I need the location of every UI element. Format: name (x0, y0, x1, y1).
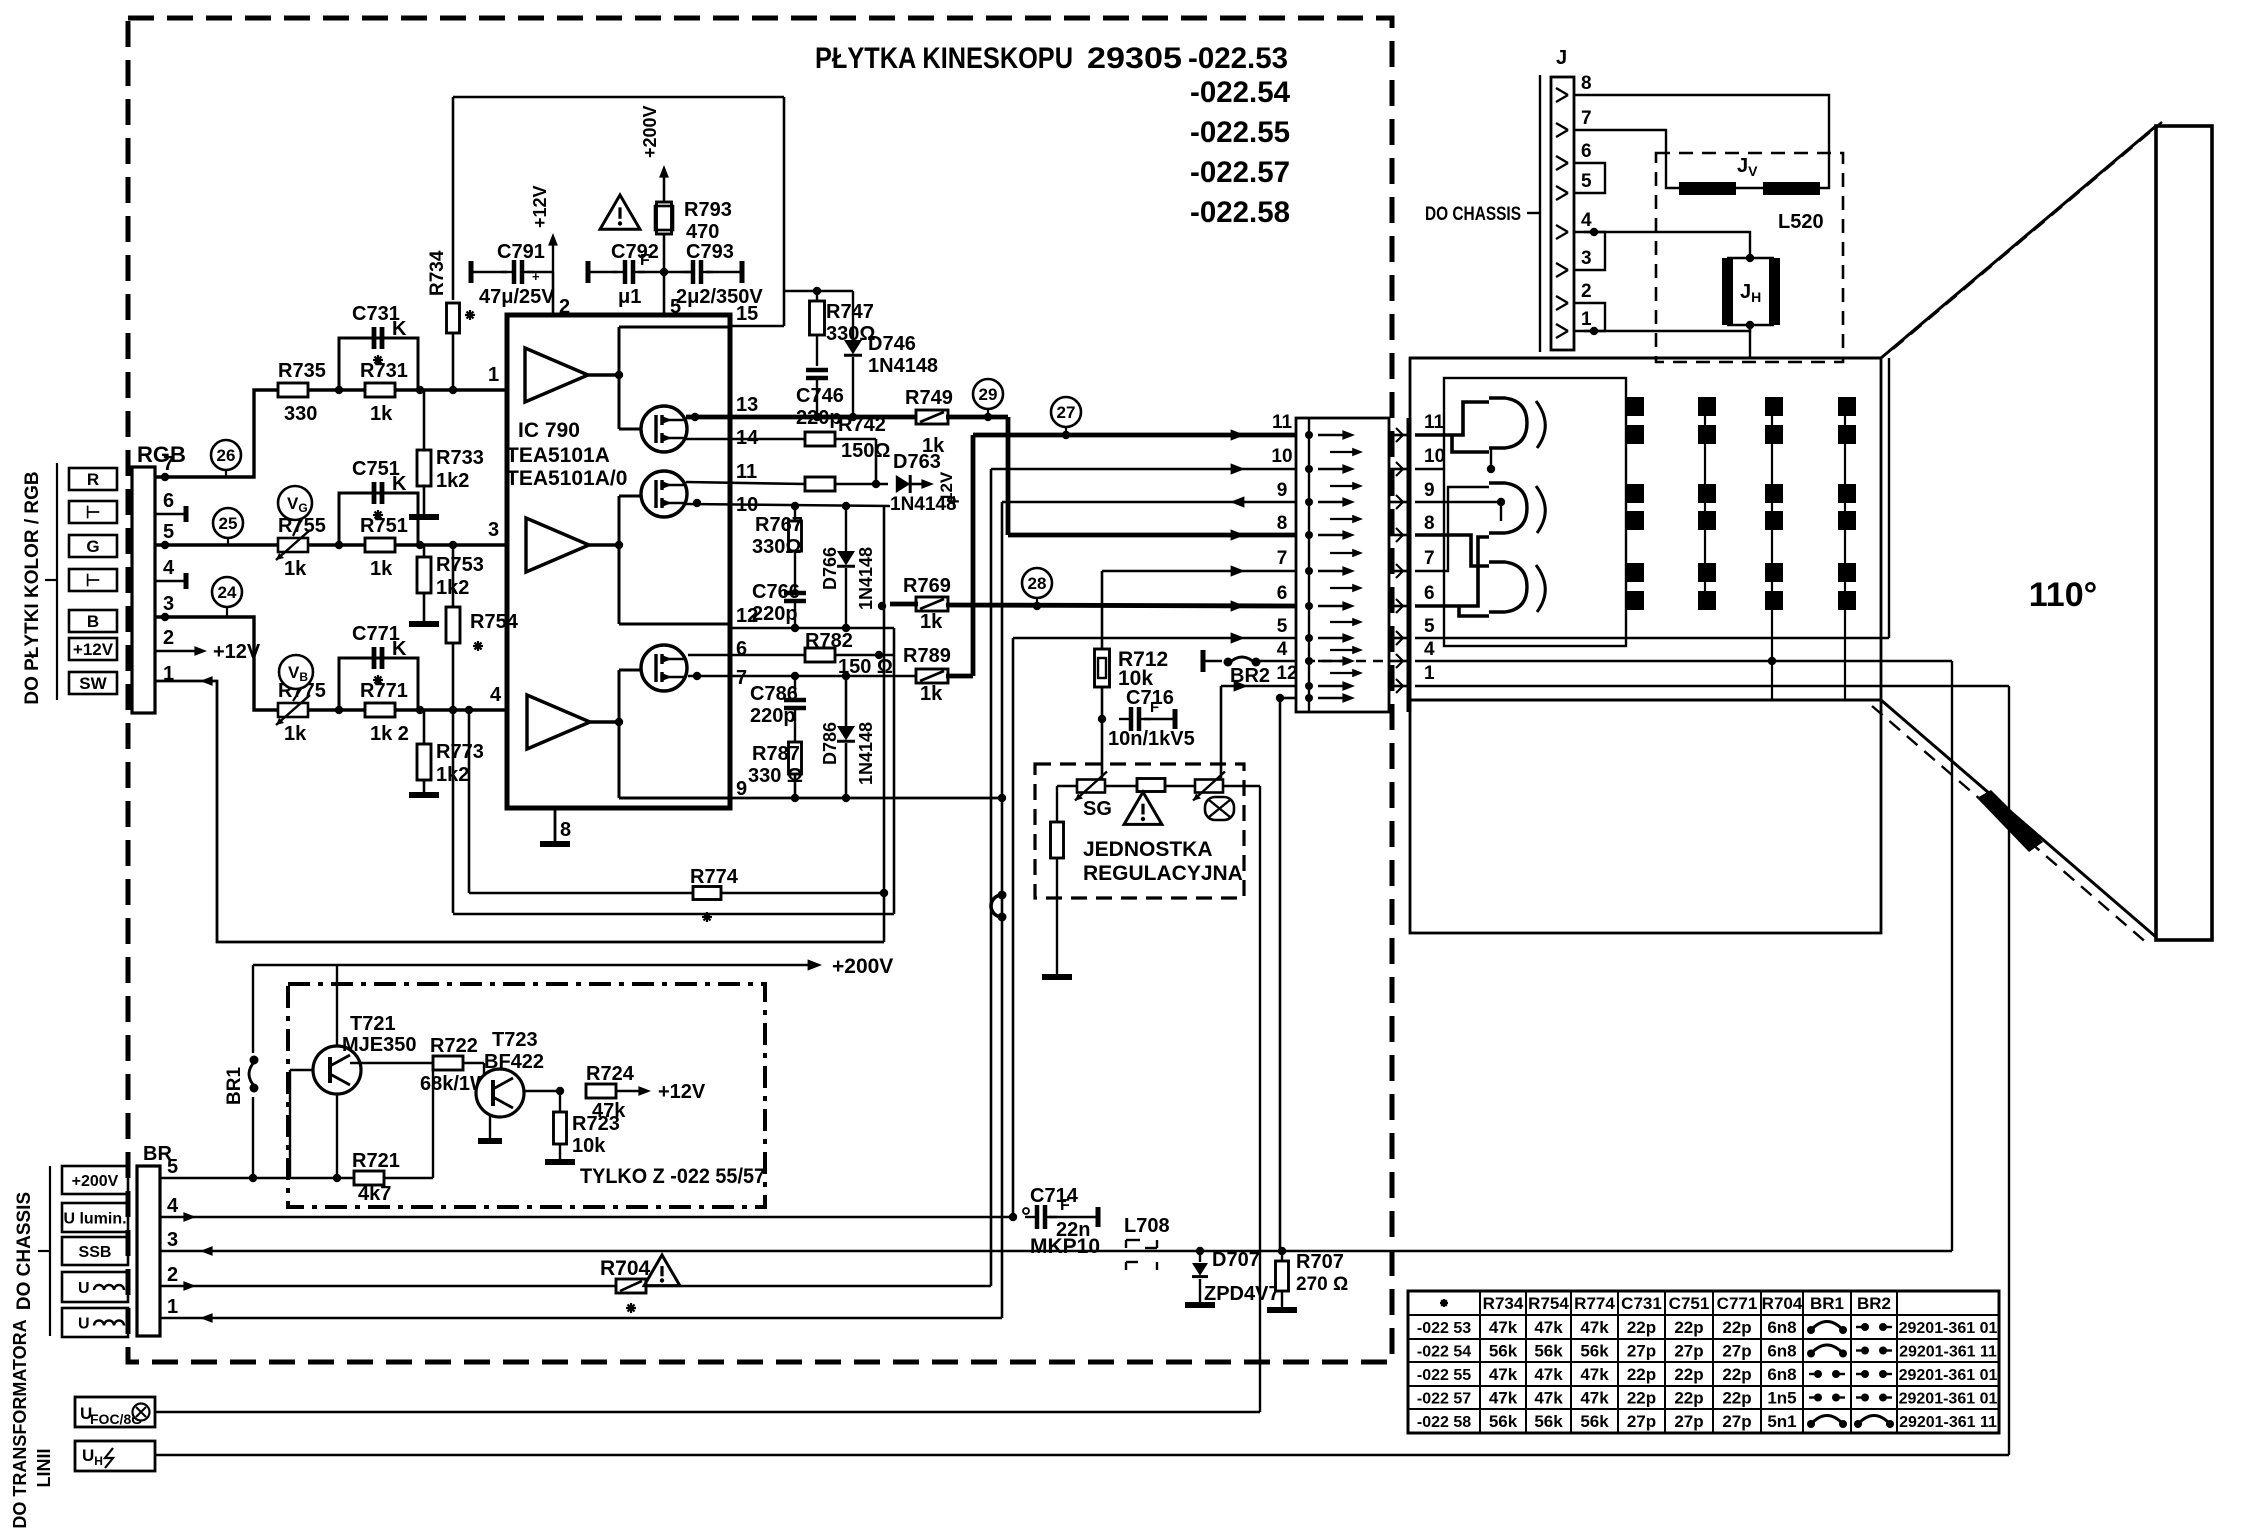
svg-text:-022 54: -022 54 (1417, 1344, 1471, 1361)
svg-text:C793: C793 (686, 241, 734, 263)
svg-text:4: 4 (1424, 639, 1435, 660)
svg-text:R734: R734 (427, 250, 448, 296)
svg-text:R774: R774 (690, 866, 739, 888)
svg-text:47k: 47k (1534, 1389, 1563, 1408)
svg-text:4: 4 (1277, 639, 1288, 660)
svg-text:R749: R749 (905, 387, 953, 409)
svg-text:U lumin.: U lumin. (63, 1211, 126, 1228)
svg-text:R771: R771 (360, 680, 408, 702)
svg-text:47k: 47k (1580, 1389, 1609, 1408)
svg-text:3: 3 (163, 593, 174, 615)
svg-text:C751: C751 (1669, 1294, 1710, 1313)
svg-text:12: 12 (1276, 663, 1297, 684)
svg-text:11: 11 (736, 461, 757, 483)
svg-text:27p: 27p (1674, 1342, 1703, 1361)
svg-text:R704: R704 (600, 1257, 651, 1280)
svg-text:6n8: 6n8 (1767, 1318, 1796, 1337)
svg-text:22p: 22p (1722, 1365, 1751, 1384)
svg-text:2: 2 (167, 1264, 178, 1286)
svg-text:29201-361 01: 29201-361 01 (1899, 1367, 1998, 1384)
svg-text:DO CHASSIS: DO CHASSIS (1425, 204, 1521, 225)
svg-text:27p: 27p (1627, 1412, 1656, 1431)
svg-text:U: U (78, 1280, 90, 1297)
svg-text:BR1: BR1 (1810, 1294, 1844, 1313)
svg-text:27p: 27p (1722, 1342, 1751, 1361)
svg-text:T723: T723 (492, 1029, 538, 1051)
svg-text:R754: R754 (1528, 1294, 1569, 1313)
svg-text:BR1: BR1 (224, 1067, 245, 1105)
svg-text:13: 13 (736, 394, 758, 416)
svg-text:6: 6 (1277, 583, 1288, 604)
svg-text:T721: T721 (350, 1013, 396, 1035)
svg-text:C786: C786 (750, 683, 798, 705)
svg-text:5: 5 (163, 521, 174, 543)
svg-text:8: 8 (1581, 73, 1592, 94)
svg-text:56k: 56k (1580, 1342, 1609, 1361)
svg-text:10: 10 (1271, 446, 1292, 467)
svg-text:R793: R793 (684, 199, 732, 221)
svg-text:L708: L708 (1124, 1215, 1170, 1237)
svg-text:R724: R724 (586, 1063, 635, 1085)
svg-text:D746: D746 (868, 333, 916, 355)
svg-text:R734: R734 (1483, 1294, 1524, 1313)
svg-text:29201-361 01: 29201-361 01 (1899, 1391, 1998, 1408)
svg-text:-022 57: -022 57 (1417, 1391, 1471, 1408)
svg-text:U: U (78, 1316, 90, 1333)
svg-text:22p: 22p (1674, 1318, 1703, 1337)
svg-text:22p: 22p (1627, 1389, 1656, 1408)
svg-text:47k: 47k (1489, 1389, 1518, 1408)
svg-text:1n5: 1n5 (1767, 1389, 1796, 1408)
svg-text:MJE350: MJE350 (342, 1034, 417, 1056)
svg-text:1: 1 (488, 364, 499, 386)
svg-text:K: K (392, 473, 407, 495)
svg-text:+200V: +200V (640, 105, 660, 158)
svg-text:7: 7 (1581, 108, 1592, 129)
svg-text:⊢: ⊢ (86, 503, 101, 522)
svg-text:R754: R754 (470, 611, 519, 633)
svg-text:25: 25 (219, 514, 238, 533)
svg-text:C791: C791 (497, 241, 545, 263)
svg-text:1: 1 (1424, 663, 1435, 684)
svg-text:330: 330 (284, 403, 317, 425)
svg-text:6: 6 (1424, 583, 1435, 604)
svg-text:22p: 22p (1627, 1318, 1656, 1337)
svg-text:9: 9 (1277, 480, 1288, 501)
svg-text:R773: R773 (436, 741, 484, 763)
svg-text:22p: 22p (1627, 1365, 1656, 1384)
svg-text:SG: SG (1083, 798, 1112, 820)
svg-text:29: 29 (979, 385, 998, 404)
svg-text:C771: C771 (1717, 1294, 1758, 1313)
svg-text:3: 3 (488, 519, 499, 541)
svg-text:5n1: 5n1 (1767, 1412, 1796, 1431)
svg-text:K: K (392, 318, 407, 340)
svg-text:R747: R747 (826, 301, 874, 323)
svg-text:-022 58: -022 58 (1417, 1414, 1471, 1431)
svg-text:SW: SW (79, 674, 107, 693)
svg-text:1k: 1k (920, 611, 943, 633)
svg-text:150Ω: 150Ω (841, 440, 890, 462)
svg-text:47k: 47k (1580, 1365, 1609, 1384)
svg-text:11: 11 (1424, 412, 1445, 433)
svg-text:1N4148: 1N4148 (856, 722, 876, 785)
svg-text:-022.53: -022.53 (1188, 42, 1288, 75)
svg-text:JEDNOSTKA: JEDNOSTKA (1083, 838, 1213, 861)
svg-text:10k: 10k (572, 1135, 606, 1157)
svg-text:6: 6 (1581, 141, 1592, 162)
svg-text:9: 9 (1424, 480, 1435, 501)
svg-text:1N4148: 1N4148 (868, 355, 938, 377)
svg-text:15: 15 (736, 303, 758, 325)
svg-text:F: F (1060, 1197, 1070, 1214)
svg-text:+12V: +12V (530, 185, 550, 228)
svg-text:L520: L520 (1778, 211, 1824, 233)
svg-text:6: 6 (163, 490, 174, 512)
svg-text:56k: 56k (1489, 1342, 1518, 1361)
svg-text:+12V: +12V (73, 640, 114, 659)
svg-text:110°: 110° (2029, 576, 2097, 614)
svg-text:220p: 220p (750, 705, 796, 727)
svg-text:8: 8 (1424, 513, 1435, 534)
svg-text:6n8: 6n8 (1767, 1342, 1796, 1361)
svg-text:+200V: +200V (72, 1173, 119, 1190)
svg-text:DO TRANSFORMATORA: DO TRANSFORMATORA (10, 1319, 30, 1528)
svg-text:1k: 1k (284, 558, 307, 580)
svg-text:R731: R731 (360, 360, 408, 382)
svg-text:330Ω: 330Ω (752, 536, 801, 558)
svg-text:22p: 22p (1722, 1318, 1751, 1337)
svg-text:27p: 27p (1674, 1412, 1703, 1431)
svg-text:5: 5 (1424, 616, 1435, 637)
svg-text:R735: R735 (278, 360, 326, 382)
svg-text:K: K (392, 638, 407, 660)
svg-text:+12V: +12V (658, 1081, 706, 1103)
svg-text:R721: R721 (352, 1150, 400, 1172)
svg-text:PŁYTKA KINESKOPU: PŁYTKA KINESKOPU (815, 42, 1073, 75)
svg-text:8: 8 (560, 819, 571, 841)
svg-text:47k: 47k (1534, 1318, 1563, 1337)
svg-text:28: 28 (1028, 574, 1047, 593)
svg-text:5: 5 (1581, 171, 1592, 192)
svg-text:26: 26 (217, 446, 236, 465)
svg-text:22p: 22p (1674, 1365, 1703, 1384)
svg-text:C766: C766 (752, 581, 800, 603)
svg-text:56k: 56k (1534, 1342, 1563, 1361)
svg-text:R782: R782 (805, 630, 853, 652)
svg-text:56k: 56k (1489, 1412, 1518, 1431)
svg-text:1N4148: 1N4148 (856, 547, 876, 610)
svg-text:29305: 29305 (1087, 42, 1182, 75)
svg-text:G: G (86, 537, 99, 556)
svg-text:C731: C731 (1621, 1294, 1662, 1313)
svg-text:56k: 56k (1580, 1412, 1609, 1431)
svg-text:R722: R722 (430, 1035, 478, 1057)
svg-text:R723: R723 (572, 1113, 620, 1135)
svg-text:10: 10 (1424, 446, 1445, 467)
svg-text:R704: R704 (1762, 1294, 1803, 1313)
svg-text:1k: 1k (370, 558, 393, 580)
svg-text:MKP10: MKP10 (1030, 1235, 1100, 1258)
svg-text:-022.55: -022.55 (1190, 116, 1290, 149)
svg-text:-022 53: -022 53 (1417, 1320, 1471, 1337)
svg-text:RGB: RGB (137, 442, 186, 467)
svg-text:1k 2: 1k 2 (370, 723, 409, 745)
svg-text:220p: 220p (752, 603, 798, 625)
svg-text:47k: 47k (1489, 1365, 1518, 1384)
svg-text:SSB: SSB (79, 1244, 112, 1261)
svg-text:R753: R753 (436, 554, 484, 576)
svg-text:1k: 1k (284, 723, 307, 745)
svg-text:47k: 47k (1580, 1318, 1609, 1337)
svg-text:R733: R733 (436, 447, 484, 469)
svg-text:LINII: LINII (34, 1449, 54, 1488)
svg-text:4: 4 (167, 1195, 179, 1217)
svg-text:1k: 1k (920, 683, 943, 705)
svg-text:5: 5 (1277, 616, 1288, 637)
svg-text:F: F (1150, 699, 1159, 716)
svg-text:7: 7 (1277, 548, 1288, 569)
svg-text:29201-361 11: 29201-361 11 (1899, 1414, 1997, 1431)
svg-text:F: F (640, 252, 650, 269)
svg-text:BF422: BF422 (484, 1051, 544, 1073)
svg-text:D763: D763 (893, 451, 941, 473)
svg-text:R767: R767 (755, 514, 803, 536)
svg-text:6: 6 (736, 638, 747, 660)
svg-text:29201-361 01: 29201-361 01 (1899, 1320, 1998, 1337)
svg-text:D707: D707 (1212, 1249, 1260, 1271)
svg-text:ZPD4V7: ZPD4V7 (1204, 1283, 1280, 1305)
svg-text:47μ/25V: 47μ/25V (479, 286, 555, 308)
svg-text:C714: C714 (1030, 1185, 1079, 1207)
svg-text:-022.57: -022.57 (1190, 156, 1290, 189)
svg-text:R742: R742 (838, 414, 886, 436)
svg-text:56k: 56k (1534, 1412, 1563, 1431)
svg-text:27: 27 (1057, 403, 1076, 422)
svg-text:C792: C792 (611, 241, 659, 263)
svg-text:IC 790: IC 790 (518, 419, 580, 442)
svg-text:4: 4 (1581, 210, 1592, 231)
svg-text:1k: 1k (370, 403, 393, 425)
svg-text:+: + (532, 269, 540, 284)
svg-text:DO PŁYTKI KOLOR / RGB: DO PŁYTKI KOLOR / RGB (22, 471, 43, 704)
svg-text:TEA5101A/0: TEA5101A/0 (506, 467, 627, 490)
svg-text:B: B (87, 612, 99, 631)
svg-text:REGULACYJNA: REGULACYJNA (1083, 862, 1243, 885)
svg-text:BR2: BR2 (1857, 1294, 1891, 1313)
svg-text:3: 3 (167, 1229, 178, 1251)
svg-text:+200V: +200V (832, 955, 893, 978)
svg-text:1: 1 (167, 1296, 178, 1318)
svg-text:R707: R707 (1296, 1251, 1344, 1273)
svg-text:4: 4 (163, 557, 175, 579)
svg-text:TYLKO Z -022 55/57: TYLKO Z -022 55/57 (580, 1165, 765, 1188)
svg-text:C746: C746 (796, 385, 844, 407)
svg-text:R774: R774 (1574, 1294, 1615, 1313)
svg-text:⊢: ⊢ (86, 571, 101, 590)
svg-text:-022 55: -022 55 (1417, 1367, 1471, 1384)
svg-text:R769: R769 (903, 575, 951, 597)
svg-text:μ1: μ1 (618, 286, 641, 308)
svg-text:47k: 47k (1489, 1318, 1518, 1337)
svg-text:10n/1kV5: 10n/1kV5 (1108, 728, 1195, 750)
svg-text:22p: 22p (1722, 1389, 1751, 1408)
svg-text:27p: 27p (1722, 1412, 1751, 1431)
svg-text:TEA5101A: TEA5101A (506, 444, 610, 467)
svg-text:2: 2 (163, 627, 174, 649)
svg-text:8: 8 (1277, 513, 1288, 534)
svg-text:22p: 22p (1674, 1389, 1703, 1408)
svg-text:270 Ω: 270 Ω (1296, 1274, 1348, 1295)
svg-text:J: J (1556, 47, 1567, 69)
svg-text:7: 7 (736, 667, 747, 689)
svg-text:-022.54: -022.54 (1190, 76, 1290, 109)
svg-text:7: 7 (1424, 548, 1435, 569)
svg-text:330 Ω: 330 Ω (748, 765, 803, 787)
svg-text:29201-361 11: 29201-361 11 (1899, 1344, 1997, 1361)
svg-text:24: 24 (218, 583, 237, 602)
svg-text:6n8: 6n8 (1767, 1365, 1796, 1384)
svg-text:1: 1 (1581, 309, 1592, 330)
svg-text:11: 11 (1272, 412, 1293, 433)
svg-text:5: 5 (167, 1156, 178, 1178)
svg-text:3: 3 (1581, 248, 1592, 269)
svg-text:1k2: 1k2 (436, 470, 469, 492)
svg-text:7: 7 (163, 453, 174, 475)
svg-text:DO CHASSIS: DO CHASSIS (14, 1192, 35, 1310)
svg-text:-022.58: -022.58 (1190, 196, 1290, 229)
svg-text:D786: D786 (820, 722, 840, 765)
svg-text:R751: R751 (360, 515, 408, 537)
svg-text:2: 2 (1581, 281, 1592, 302)
svg-text:D766: D766 (820, 547, 840, 590)
svg-text:27p: 27p (1627, 1342, 1656, 1361)
svg-text:R787: R787 (752, 743, 800, 765)
svg-text:R: R (87, 470, 99, 489)
svg-text:12V: 12V (937, 471, 956, 502)
svg-text:470: 470 (686, 221, 719, 243)
svg-text:4: 4 (490, 684, 502, 706)
svg-text:4k7: 4k7 (358, 1183, 391, 1205)
svg-text:R789: R789 (903, 645, 951, 667)
svg-text:47k: 47k (1534, 1365, 1563, 1384)
